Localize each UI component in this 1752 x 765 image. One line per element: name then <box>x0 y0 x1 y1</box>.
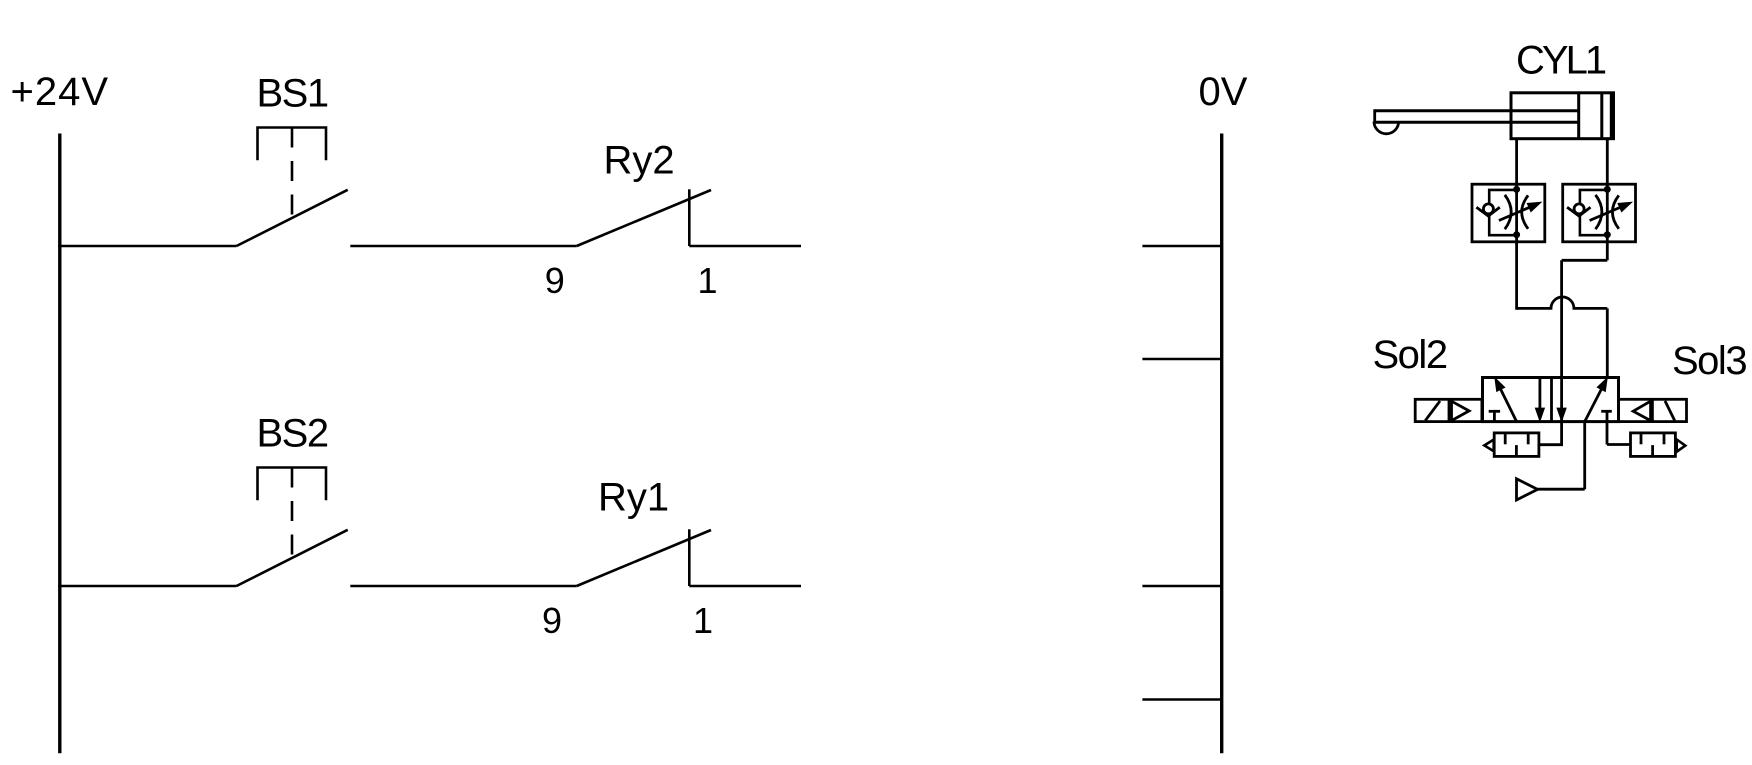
valve V1 left position down arrow shaft <box>1539 378 1542 410</box>
pushbutton BS1 plunger dashed link <box>291 128 294 218</box>
svg-text:Ry2: Ry2 <box>604 139 675 183</box>
silencer right tip triangle <box>1677 440 1686 452</box>
valve V1 right position down arrow head <box>1557 408 1566 421</box>
pipe valve port 1 down <box>1583 422 1586 490</box>
relay contact Ry1 fixed terminal bar <box>688 529 691 586</box>
svg-text:BS1: BS1 <box>257 72 328 116</box>
valve V1 right position diagonal arrow shaft <box>1585 389 1602 421</box>
cylinder CYL1 end cap inner bar <box>1610 93 1613 139</box>
cylinder CYL1 piston bar left <box>1577 93 1580 139</box>
solenoid Sol2 coil slash <box>1425 401 1440 421</box>
pipe crossover upper horizontal <box>1562 259 1608 262</box>
silencer left tip triangle <box>1484 440 1493 452</box>
FCV bypass pipe <box>1489 190 1516 235</box>
relay contact Ry2 fixed terminal bar <box>688 189 691 246</box>
pipe supply horizontal <box>1538 488 1585 491</box>
wire rung2 middle <box>350 585 576 588</box>
wire rung1 middle <box>350 245 576 248</box>
svg-text:Sol2: Sol2 <box>1373 333 1447 377</box>
valve V1 body outline <box>1483 378 1619 422</box>
pipe to valve port 2 <box>1606 308 1609 377</box>
svg-text:BS2: BS2 <box>257 412 328 456</box>
pushbutton BS2 actuator bracket <box>258 468 327 501</box>
solenoid Sol2 pilot triangle <box>1452 401 1470 420</box>
valve V1 position divider <box>1550 378 1553 422</box>
supply source triangle <box>1517 479 1538 500</box>
FCV throttle right arc <box>1522 195 1528 228</box>
wire rung1 right <box>689 245 801 248</box>
wire rung1 left <box>58 245 236 248</box>
FCV check valve ball <box>1483 204 1493 214</box>
valve V1 right position blocked port T cap <box>1601 410 1612 413</box>
svg-text:CYL1: CYL1 <box>1516 39 1606 83</box>
svg-text:0V: 0V <box>1199 70 1248 114</box>
svg-text:9: 9 <box>542 600 562 641</box>
FCV body box <box>1472 184 1545 242</box>
wire stub to 0V below rung1 <box>1142 358 1221 361</box>
FCV main pipe through <box>1515 184 1518 242</box>
svg-text:+24V: +24V <box>11 70 110 114</box>
FCV adjustment arrow shaft <box>1499 208 1529 221</box>
relay contact Ry1 blade <box>577 530 711 586</box>
solenoid Sol2 divider <box>1448 399 1451 421</box>
valve V1 left position down arrow head <box>1535 408 1544 421</box>
FCV junction dot top <box>1513 186 1520 193</box>
pipe valve port 3 to right silencer <box>1607 443 1631 446</box>
silencer left box <box>1494 433 1539 457</box>
valve V1 right position blocked port T stem and port line <box>1606 411 1609 444</box>
silencer right baffle 1 <box>1640 433 1643 444</box>
+24V rail <box>58 134 61 754</box>
relay contact Ry2 blade <box>577 190 711 246</box>
pushbutton BS2 contact blade <box>237 530 348 586</box>
flow control valve FCV1 <box>1472 184 1545 242</box>
wire rung2 left <box>58 585 236 588</box>
wire stub to 0V rung1 <box>1142 245 1221 248</box>
FCV throttle left arc <box>1505 195 1511 229</box>
cylinder CYL1 rod end cap <box>1373 109 1376 122</box>
svg-text:1: 1 <box>698 260 718 301</box>
silencer right baffle 2 <box>1651 445 1654 456</box>
solenoid Sol3 box <box>1619 399 1687 421</box>
valve V1 left position diagonal arrow shaft <box>1501 389 1517 421</box>
cylinder CYL1 piston bar right <box>1600 93 1603 139</box>
solenoid Sol3 pilot triangle <box>1633 401 1650 420</box>
solenoid Sol3 divider <box>1651 399 1654 421</box>
cylinder CYL1 rod end roller <box>1374 122 1399 134</box>
svg-text:9: 9 <box>545 260 565 301</box>
valve V1 left position diagonal arrow head <box>1495 378 1505 392</box>
solenoid Sol2 box <box>1415 399 1482 421</box>
0V rail <box>1220 134 1223 754</box>
pipe crossover horizontal with jump <box>1517 297 1608 308</box>
FCV adjustment arrow head <box>1527 202 1541 211</box>
FCV check valve seat <box>1476 207 1499 216</box>
flow control valve FCV2 <box>1563 184 1636 242</box>
silencer left baffle 1 <box>1504 433 1507 444</box>
silencer right box <box>1631 433 1676 457</box>
silencer left baffle 3 <box>1527 433 1530 444</box>
cylinder CYL1 piston rod bottom edge <box>1375 121 1579 124</box>
solenoid Sol3 coil slash <box>1665 401 1675 421</box>
pipe to valve port 4 through jump <box>1560 260 1563 421</box>
silencer left baffle 2 <box>1515 445 1518 456</box>
valve V1 left position blocked port T stem <box>1493 411 1496 421</box>
pushbutton BS1 actuator bracket <box>258 128 327 161</box>
svg-text:1: 1 <box>693 600 713 641</box>
pushbutton BS1 contact blade <box>237 190 348 246</box>
valve V1 left position blocked port T cap <box>1489 410 1500 413</box>
valve V1 right position diagonal arrow head <box>1597 378 1607 392</box>
wire rung2 right <box>689 585 801 588</box>
cylinder CYL1 piston rod top edge <box>1375 109 1579 112</box>
svg-text:Sol3: Sol3 <box>1672 339 1746 383</box>
pipe valve port 5 to left silencer <box>1539 422 1562 445</box>
svg-text:Ry1: Ry1 <box>598 476 669 520</box>
silencer right baffle 3 <box>1663 433 1666 444</box>
pipe cylinder right port down <box>1606 139 1609 185</box>
cylinder CYL1 body <box>1511 93 1614 139</box>
wire stub to 0V rung2 <box>1142 585 1221 588</box>
pipe cylinder left port down <box>1515 139 1518 185</box>
pipe FCV2 out down <box>1606 242 1609 260</box>
wire stub to 0V below rung2 <box>1142 698 1221 701</box>
FCV junction dot bottom <box>1513 231 1520 238</box>
pipe FCV1 out down <box>1515 242 1518 310</box>
pushbutton BS2 plunger dashed link <box>291 468 294 558</box>
